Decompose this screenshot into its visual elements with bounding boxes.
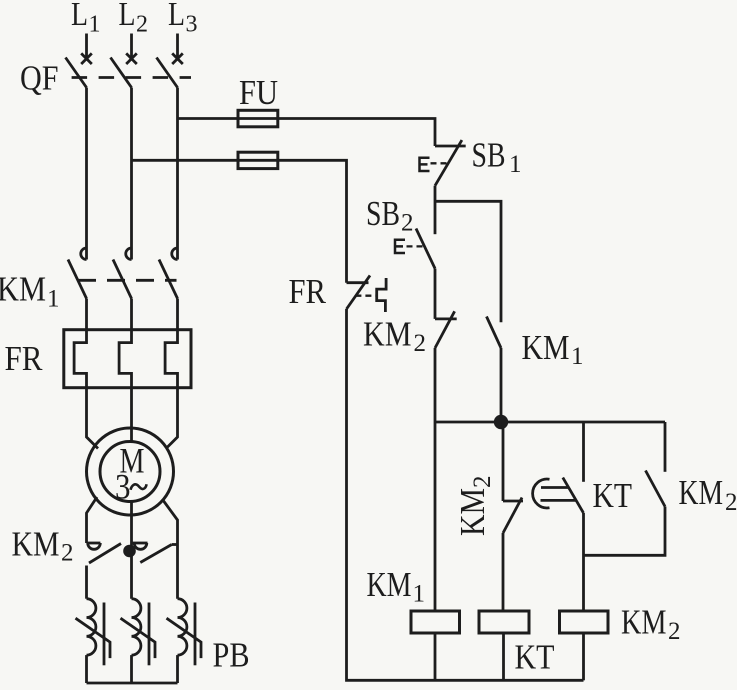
contact KM2 self-latch NO — [646, 471, 666, 507]
coil KM1 — [411, 611, 460, 633]
label SB2 — [366, 194, 414, 237]
svg-text:SB: SB — [366, 194, 400, 233]
label L1 — [71, 0, 101, 38]
svg-text:3: 3 — [186, 12, 198, 38]
svg-text:2: 2 — [414, 330, 427, 357]
pushbutton SB2 start NO — [395, 229, 435, 269]
svg-text:KT: KT — [593, 476, 633, 515]
svg-text:KM: KM — [12, 525, 60, 564]
circuit breaker QF pole 1 lever — [66, 58, 87, 88]
wire phase3 FR to motor — [166, 388, 178, 449]
FR heater element 3 — [165, 330, 177, 388]
KM1 mechanical linkage dashed line — [78, 279, 177, 282]
FR heater element 1 — [74, 330, 86, 388]
svg-text:FR: FR — [289, 272, 327, 311]
wire fuse1 to SB1 corner — [278, 119, 435, 147]
svg-text:KM: KM — [363, 315, 412, 354]
tilde of 3~ — [131, 484, 147, 490]
terminal X mark L3 — [172, 53, 183, 64]
circuit breaker QF pole 2 lever — [111, 58, 132, 88]
svg-text:2: 2 — [136, 12, 148, 38]
svg-text:KM: KM — [522, 328, 570, 367]
svg-text:KM: KM — [621, 603, 667, 642]
contactor KM1 main contact pole 2 — [113, 248, 132, 299]
wire rotor2 motor exit — [130, 502, 133, 599]
label KM2 far right — [679, 473, 737, 516]
svg-text:3: 3 — [115, 467, 131, 507]
wire KM2 interlock to KM1 coil — [434, 348, 437, 611]
svg-text:KM2: KM2 — [453, 476, 496, 537]
svg-text:1: 1 — [47, 286, 60, 313]
motor M outer circle — [87, 428, 174, 515]
rheostat PB winding 2 — [121, 599, 156, 683]
contactor KM2 rotor shorting contact 1 — [87, 543, 122, 563]
fuse FU element 2 — [238, 152, 278, 168]
contactor KM1 main contact pole 3 — [159, 248, 178, 299]
svg-text:1: 1 — [571, 343, 584, 370]
wire KM1 coil to rail — [434, 633, 437, 680]
label L2 — [119, 0, 149, 38]
svg-text:2: 2 — [668, 618, 681, 645]
svg-text:L: L — [119, 0, 136, 33]
wire phase3 QF to KM1 — [176, 88, 179, 260]
rheostat PB winding 3 — [167, 599, 202, 683]
svg-text:FU: FU — [239, 73, 278, 112]
wire control feed 2 from phase2 to FR — [132, 159, 239, 162]
FR heater element 2 — [119, 330, 131, 388]
wire latch to junction — [500, 348, 503, 422]
wire phase1 QF to KM1 — [85, 88, 88, 260]
wire phase2 FR to motor — [130, 388, 133, 442]
pushbutton SB1 stop NC — [420, 140, 466, 186]
wire branch to KT contact — [582, 422, 585, 482]
wire KM2 coil to rail — [582, 633, 585, 680]
svg-text:KM: KM — [0, 270, 46, 309]
wire KM2 NC to KT coil — [502, 533, 505, 611]
motor M inner circle — [100, 442, 160, 502]
wire phase1 FR to motor — [87, 388, 99, 449]
node rotor junction dot — [123, 545, 136, 558]
svg-text:2: 2 — [401, 210, 414, 237]
wire phase2 KM1 to FR — [130, 299, 133, 330]
terminal X mark L2 — [126, 53, 137, 64]
wire junction to KM2 NC branch — [502, 422, 505, 501]
svg-text:KM: KM — [367, 565, 412, 604]
contact KM2 NC interlock — [435, 311, 457, 348]
QF mechanical linkage dashed line — [72, 76, 191, 79]
svg-text:1: 1 — [509, 151, 522, 178]
rheostat PB winding 1 — [76, 599, 111, 683]
terminal X mark L1 — [81, 53, 92, 64]
thermal relay FR NC contact — [347, 275, 387, 312]
wire SB1 to node1 — [434, 186, 437, 235]
label SB1 — [472, 136, 522, 179]
circuit breaker QF pole 3 lever — [157, 58, 178, 88]
coil KM2 — [560, 611, 609, 633]
svg-text:2: 2 — [61, 540, 74, 567]
wire phase3 KM1 to FR — [176, 299, 179, 330]
fuse FU element 1 — [238, 110, 278, 127]
svg-text:SB: SB — [472, 136, 506, 175]
label KM2 rotor — [12, 525, 74, 567]
wire rotor3 motor exit — [163, 500, 178, 599]
contact KM2 NC above KT coil — [503, 498, 523, 534]
wire KM2 latch down and across — [584, 507, 666, 556]
wire rotor1 lower — [85, 566, 88, 599]
wire phase1 KM1 to FR — [85, 299, 88, 330]
contactor KM2 rotor shorting contact 2 — [132, 543, 178, 563]
wire SB2 to KM2 interlock — [434, 269, 437, 319]
wire FR contact down to bottom rail — [347, 309, 584, 680]
wire L3 lead-in arrow — [176, 34, 179, 58]
contactor KM1 main contact pole 1 — [68, 248, 87, 299]
wire node2 horizontal rail — [435, 421, 665, 424]
node junction dot — [494, 415, 508, 429]
contact KM1 self-latch NO — [487, 317, 502, 349]
thermal relay FR box — [64, 330, 191, 388]
wire phase2 QF to KM1 — [130, 88, 133, 260]
svg-text:L: L — [168, 0, 185, 33]
wire control feed 1 from phase3 to SB1 — [178, 117, 239, 120]
svg-text:PB: PB — [213, 636, 250, 675]
wire KT contact to KM2 coil — [582, 513, 585, 611]
wire branch to KM2 latch contact — [664, 422, 667, 472]
wire fuse2 to FR column corner — [278, 160, 347, 282]
label KM1 latch — [522, 328, 584, 370]
label KM2 coil — [621, 603, 681, 646]
svg-text:2: 2 — [725, 489, 737, 516]
svg-text:KT: KT — [515, 638, 555, 677]
label L3 — [168, 0, 198, 38]
wire rotor bottom rail — [87, 682, 178, 685]
wire L2 lead-in arrow — [130, 34, 133, 58]
label KM1 coil — [367, 565, 426, 608]
wire self-latch branch — [435, 201, 501, 322]
svg-text:FR: FR — [5, 339, 44, 378]
svg-text:1: 1 — [413, 581, 426, 608]
label KM1 main — [0, 270, 60, 313]
coil KT — [479, 611, 529, 633]
svg-text:L: L — [71, 0, 88, 33]
wire L1 lead-in arrow — [85, 34, 88, 58]
wire KT coil to rail — [502, 633, 505, 680]
svg-text:KM: KM — [679, 473, 724, 512]
wire rotor1 motor exit — [87, 497, 98, 543]
svg-text:QF: QF — [20, 59, 59, 98]
label KM2 interlock — [363, 315, 426, 358]
time relay KT delayed NO contact — [533, 478, 584, 513]
svg-text:1: 1 — [89, 12, 101, 38]
